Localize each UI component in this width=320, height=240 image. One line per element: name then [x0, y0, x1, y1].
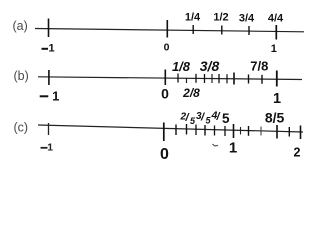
tick 1/8 on line (b) [177, 74, 179, 83]
svg-text:1: 1 [229, 140, 237, 157]
label 1 on line (b) [273, 91, 281, 107]
stray mark below line (c) [213, 144, 219, 146]
tick 2 on line (c) [300, 126, 302, 140]
extra tick 2 on line (c) [224, 126, 226, 136]
svg-text:2/8: 2/8 [182, 86, 200, 100]
faint tick on line (c) [260, 127, 262, 136]
tick 1/4 on line (a) [192, 25, 194, 34]
label -1 on line (c) [41, 142, 54, 154]
tick 1 on line (c) [233, 124, 235, 138]
extra tick on line (b) [226, 74, 228, 83]
svg-text:(b): (b) [14, 69, 29, 83]
tick 1/5 on line (c) [175, 125, 177, 136]
label 3/5 on line (c) [196, 111, 212, 126]
tick 3/8 on line (b) [204, 74, 206, 83]
svg-text:1/2: 1/2 [213, 12, 228, 24]
label -1 on line (a) [42, 43, 55, 55]
tick 2/5 on line (c) [186, 124, 188, 135]
label (c) [14, 120, 29, 134]
tick 1 on line (b) [276, 71, 278, 87]
label 7/8 on line (b) [250, 59, 268, 74]
tick 1/2 on line (a) [221, 26, 223, 35]
tick 7/8 on line (b) [261, 75, 263, 84]
label 0 on line (a) [164, 41, 170, 53]
svg-text:8/5: 8/5 [265, 110, 285, 126]
label 0 on line (c) [160, 146, 169, 163]
svg-text:4/4: 4/4 [268, 13, 284, 25]
tick 6/8 on line (b) [248, 75, 250, 84]
label -1 on line (b) [40, 89, 60, 104]
label 4/5 on line (c) [211, 110, 231, 126]
svg-text:3/4: 3/4 [239, 13, 255, 25]
number line (a) axis [35, 29, 304, 32]
svg-text:1: 1 [273, 91, 281, 107]
label (a) [13, 19, 28, 33]
tick 3/4 on line (a) [248, 26, 250, 35]
svg-text:1/4: 1/4 [185, 12, 201, 24]
tick 0 on line (b) [164, 70, 166, 86]
label 1/4 on line (a) [185, 12, 201, 24]
tick 0 on line (c) [163, 123, 165, 142]
label 2 on line (c) [294, 145, 301, 159]
handwritten tick under 3/8 on line (b) [211, 74, 213, 83]
label 2/5 on line (c) [180, 112, 197, 127]
tick -1 on line (b) [48, 70, 50, 85]
label 8/5 on line (c) [265, 110, 285, 126]
svg-text:1: 1 [52, 89, 59, 104]
number line (c) axis [38, 125, 303, 132]
svg-text:0: 0 [161, 86, 169, 102]
svg-text:3/8: 3/8 [200, 58, 220, 74]
svg-text:5: 5 [222, 111, 230, 126]
tick 5/8 on line (b) [233, 73, 235, 85]
tick 9/5 on line (c) [288, 127, 290, 137]
tick 8/5 on line (c) [276, 125, 278, 139]
label (b) [14, 69, 29, 83]
label 4/4 on line (a) [268, 13, 284, 25]
svg-text:2: 2 [294, 145, 301, 159]
label 2/8 below line (b) [182, 86, 200, 100]
tick 6/5 on line (c) [240, 127, 242, 135]
svg-text:1: 1 [47, 142, 53, 154]
svg-text:7/8: 7/8 [250, 59, 268, 74]
svg-text:1: 1 [48, 43, 54, 55]
svg-text:(a): (a) [13, 19, 28, 33]
tick 4/5 on line (c) [204, 125, 206, 136]
tick 7/5 on line (c) [248, 126, 250, 136]
tick -1 on line (c) [48, 123, 50, 135]
label 3/4 on line (a) [239, 13, 255, 25]
svg-text:1/8: 1/8 [172, 59, 191, 74]
label 1 on line (c) [229, 140, 237, 157]
tick 1 (4/4) on line (a) [275, 25, 277, 40]
svg-text:0: 0 [160, 146, 169, 163]
tick -1 on line (a) [48, 19, 50, 38]
svg-text:(c): (c) [14, 120, 29, 134]
extra tick on line (c) [214, 126, 216, 136]
number line (b) axis [38, 77, 302, 80]
svg-text:1: 1 [271, 43, 277, 55]
label 0 on line (b) [161, 86, 169, 102]
label 1/8 on line (b) [172, 59, 191, 74]
handwritten mark below line (b) [186, 78, 188, 83]
label 1 on line (a) [271, 43, 277, 55]
label 1/2 on line (a) [213, 12, 228, 24]
tick 4/8 on line (b) [218, 74, 220, 83]
label 3/8 on line (b) [200, 58, 220, 74]
svg-text:0: 0 [164, 41, 170, 53]
tick 0 on line (a) [166, 20, 168, 38]
tick 3/5 on line (c) [195, 125, 197, 136]
tick 2/8 on line (b) [195, 74, 197, 83]
